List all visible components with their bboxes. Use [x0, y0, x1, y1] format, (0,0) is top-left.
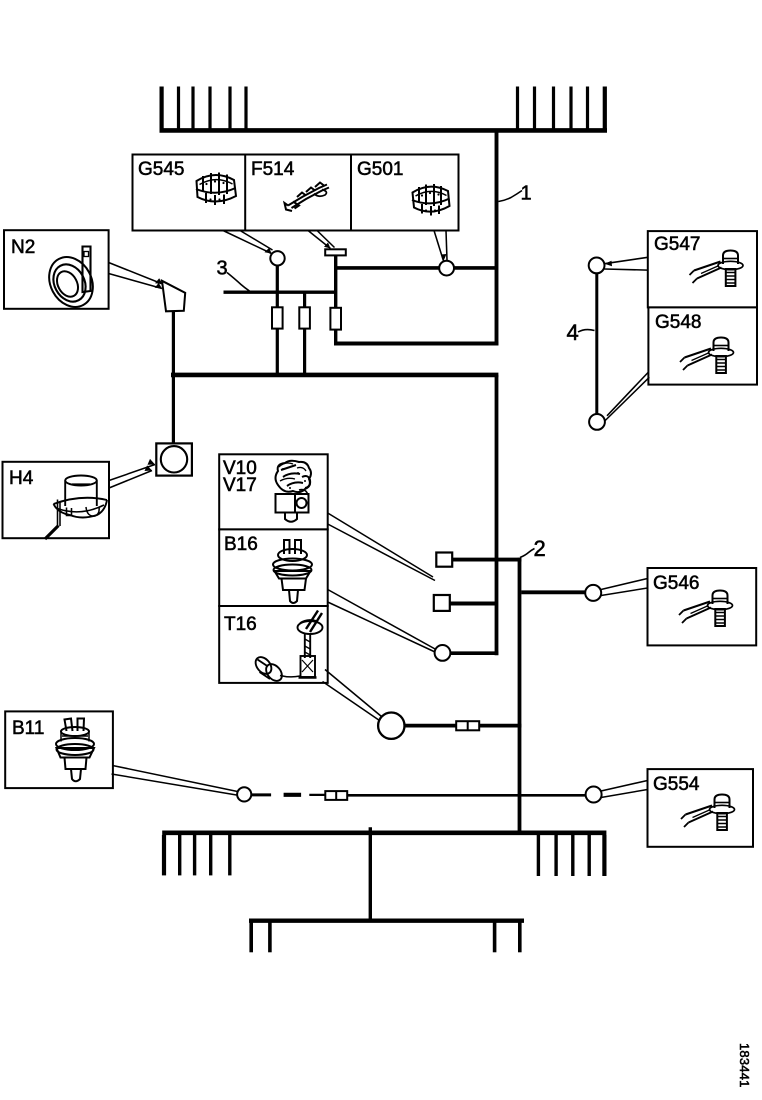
wire vertical from horn funnel to square node — [172, 311, 175, 444]
node circle G547 — [589, 258, 605, 274]
box G546 — [648, 568, 757, 645]
icon F514 bracket — [285, 183, 330, 212]
connector comb top-left — [162, 87, 246, 131]
connector square V17 — [434, 595, 450, 611]
square node with circle — [156, 443, 192, 475]
box B11 — [5, 711, 113, 788]
box row frame G545/F514/G501 — [133, 155, 459, 231]
label 1 — [499, 183, 532, 205]
label 2 — [520, 536, 546, 561]
svg-text:F514: F514 — [251, 159, 295, 180]
box G547 — [648, 231, 757, 307]
connector R1 — [272, 307, 283, 328]
box H4 — [3, 462, 110, 538]
wire vertical below bar — [334, 255, 337, 345]
svg-text:4: 4 — [567, 320, 579, 345]
node circle G548 — [589, 414, 605, 430]
leader G501 — [434, 231, 447, 262]
node circle G546 — [585, 585, 601, 601]
svg-text:2: 2 — [534, 536, 546, 561]
node circle B16 — [435, 645, 451, 661]
connector on dashed wire — [325, 791, 347, 800]
wire horizontal to node G501 — [336, 266, 497, 270]
svg-text:B11: B11 — [12, 718, 44, 739]
node circle below G501 — [439, 261, 454, 276]
connector comb lower — [251, 922, 520, 952]
svg-text:N2: N2 — [11, 237, 35, 258]
wire to G546 node — [521, 590, 585, 594]
icon B11 sensor — [56, 719, 94, 782]
icon V10/V17 valve — [276, 461, 312, 522]
wire from square V10 — [452, 558, 521, 562]
connector comb bottom-left — [164, 835, 230, 875]
leader G547 — [605, 257, 648, 270]
svg-text:183441: 183441 — [737, 1043, 752, 1088]
leader H4 — [109, 459, 155, 488]
leader B11 — [112, 766, 238, 796]
icon G548 bolt — [680, 338, 734, 374]
connector comb bottom-right — [538, 835, 604, 876]
wire vertical middle branch — [303, 292, 306, 374]
component box column V10/V17 B16 T16 — [219, 454, 328, 683]
node circle G554 — [586, 787, 602, 803]
wire thin long to G554 node — [347, 794, 586, 797]
wire 3 horizontal — [224, 291, 338, 294]
connector square V10 — [436, 553, 452, 567]
svg-text:V17: V17 — [223, 475, 257, 496]
wire loop bottom — [334, 342, 498, 346]
node big circle T16 — [378, 713, 404, 739]
box N2 — [4, 230, 109, 309]
leader V10/V17 — [328, 513, 435, 581]
wire top bus — [160, 128, 608, 133]
node circle below G545 — [270, 251, 284, 265]
connector comb top-right — [518, 87, 605, 131]
wire 1 — [495, 130, 499, 345]
icon H4 pump — [45, 476, 107, 540]
wire lower bus — [249, 919, 524, 923]
svg-text:3: 3 — [217, 258, 228, 280]
icon G545 contact crown — [196, 173, 236, 206]
wire from square V17 — [450, 602, 497, 606]
icon G547 bolt — [690, 251, 744, 287]
wire bottom bus — [162, 830, 606, 835]
box G554 — [648, 769, 754, 847]
wire 2 vertical lower — [518, 558, 522, 833]
svg-text:G548: G548 — [655, 312, 701, 333]
wire 4 — [595, 273, 598, 415]
svg-text:G547: G547 — [654, 234, 700, 255]
leader T16 — [323, 670, 382, 721]
wire main bus middle — [171, 373, 498, 378]
svg-text:G545: G545 — [138, 159, 184, 180]
svg-text:G554: G554 — [653, 774, 700, 795]
svg-text:H4: H4 — [9, 468, 34, 489]
leader G545 — [223, 231, 273, 254]
leader N2 — [109, 263, 163, 289]
leader B16 — [328, 590, 436, 653]
connector R3 — [330, 308, 341, 330]
leader G548 — [605, 372, 650, 421]
icon G501 contact crown — [412, 184, 450, 216]
wire dashed section — [251, 793, 325, 796]
icon N2 horn — [41, 247, 102, 315]
leader G546 — [601, 579, 648, 596]
box G548 — [648, 307, 757, 384]
wire vertical from node to bus — [276, 266, 279, 375]
wire from big circle — [405, 724, 522, 728]
svg-text:T16: T16 — [224, 614, 257, 635]
wire 2 vertical upper — [495, 375, 499, 655]
leader G554 — [601, 781, 648, 798]
svg-text:B16: B16 — [224, 534, 258, 555]
node circle B11 — [237, 787, 251, 801]
wire from node B16 — [450, 651, 498, 655]
connector R2 — [299, 307, 310, 328]
leader F514 — [308, 231, 335, 249]
svg-text:1: 1 — [521, 183, 532, 205]
svg-text:G546: G546 — [653, 573, 699, 594]
label 3 — [217, 258, 250, 292]
wire vertical to lower bus — [369, 827, 372, 920]
svg-text:G501: G501 — [357, 159, 403, 180]
icon B16 temp sensor — [273, 540, 312, 603]
connector bar below F514 — [325, 249, 346, 255]
icon G546 bolt — [679, 591, 733, 627]
icon T16 fuel sender — [252, 611, 322, 684]
label 4 — [567, 320, 595, 345]
horn funnel shape — [162, 281, 185, 312]
icon G554 bolt — [681, 795, 735, 831]
connector on wire — [456, 721, 479, 730]
